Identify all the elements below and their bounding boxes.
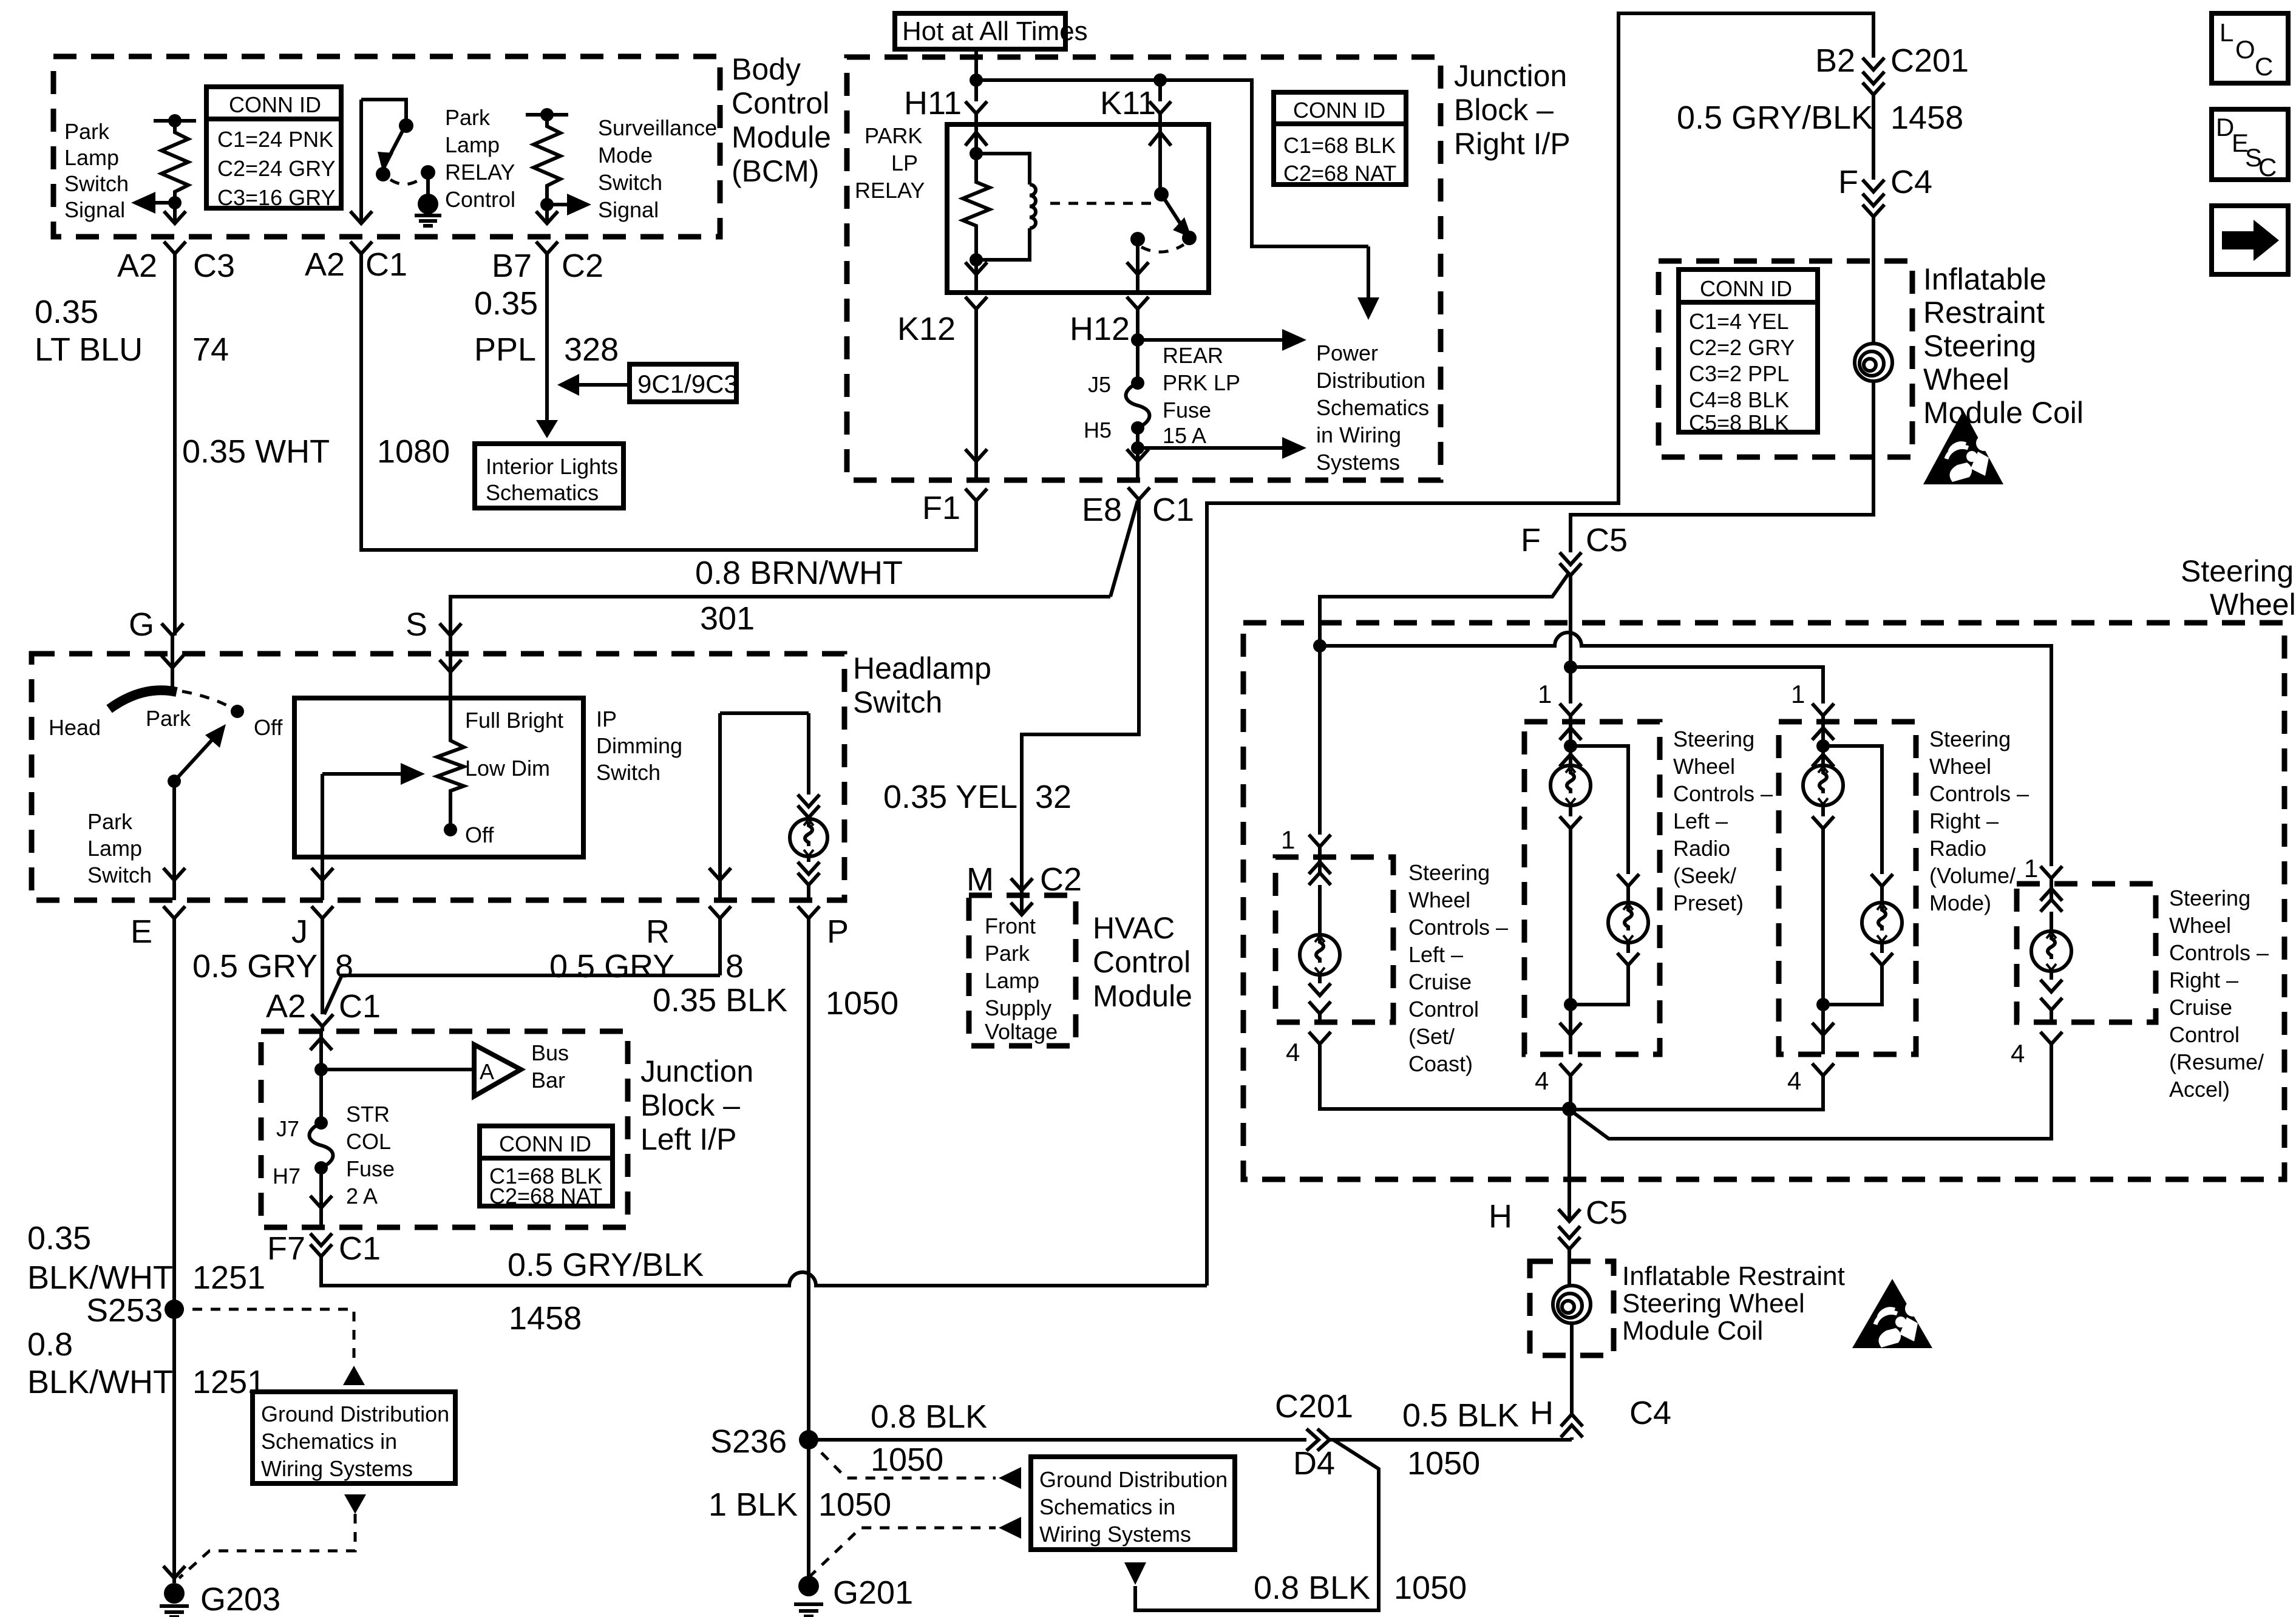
svg-text:1458: 1458 xyxy=(1890,100,1963,136)
svg-text:Inflatable: Inflatable xyxy=(1923,262,2046,296)
svg-text:C1: C1 xyxy=(365,246,407,283)
svg-text:Steering: Steering xyxy=(1923,329,2036,363)
svg-text:C1: C1 xyxy=(339,1230,381,1267)
svg-text:Block –: Block – xyxy=(640,1088,740,1122)
svg-text:J: J xyxy=(291,914,308,950)
D4 branch wire down to ground reference xyxy=(1124,1440,1379,1610)
wire labels 0.35 BLK/WHT 1251 xyxy=(27,1220,265,1296)
svg-text:C2=68 NAT: C2=68 NAT xyxy=(489,1184,602,1209)
wire A2/C3 exit xyxy=(164,203,186,636)
connector R below headlamp box xyxy=(646,906,731,975)
ground distribution box (left) xyxy=(253,1392,455,1483)
svg-text:Off: Off xyxy=(254,715,283,740)
svg-text:Surveillance: Surveillance xyxy=(598,115,717,140)
svg-text:Schematics: Schematics xyxy=(1316,395,1429,420)
body control module BCM dashed box xyxy=(53,52,831,237)
svg-text:Right –: Right – xyxy=(1929,808,1999,833)
pin 4 connector left cruise xyxy=(1286,1032,1569,1109)
svg-text:4: 4 xyxy=(1787,1066,1801,1095)
svg-text:Off: Off xyxy=(465,822,494,847)
svg-text:Lamp: Lamp xyxy=(445,132,500,157)
svg-text:REAR: REAR xyxy=(1163,343,1223,368)
text inflatable restraint steering wheel module coil (bottom) xyxy=(1622,1261,1845,1346)
svg-text:CONN ID: CONN ID xyxy=(229,92,321,117)
svg-text:Control: Control xyxy=(1093,945,1190,979)
svg-text:Switch: Switch xyxy=(853,685,942,719)
svg-text:Module: Module xyxy=(732,120,831,154)
dimmer wiper arrow xyxy=(311,763,425,900)
left cruise lamp xyxy=(1300,857,1340,1022)
svg-text:(BCM): (BCM) xyxy=(732,154,819,188)
svg-text:Preset): Preset) xyxy=(1673,890,1744,915)
svg-text:1050: 1050 xyxy=(1407,1445,1480,1482)
interior lights schematics box xyxy=(475,444,623,508)
connector J below headlamp box xyxy=(291,906,333,1014)
svg-text:C201: C201 xyxy=(1890,42,1969,79)
svg-text:RELAY: RELAY xyxy=(855,178,925,203)
svg-text:Steering: Steering xyxy=(1929,727,2011,751)
SRS airbag warning triangle (top right) xyxy=(1923,410,2003,484)
connector F C5 xyxy=(1320,522,1628,667)
CONN ID table JB right xyxy=(1274,92,1406,186)
svg-text:C1=4 YEL: C1=4 YEL xyxy=(1689,309,1788,334)
svg-text:0.5 BLK: 0.5 BLK xyxy=(1402,1397,1519,1434)
text steering wheel controls left radio xyxy=(1673,727,1773,915)
ground distribution box (middle) xyxy=(1031,1457,1235,1550)
svg-text:Control: Control xyxy=(1408,997,1479,1022)
SRS airbag warning triangle (bottom) xyxy=(1852,1279,1932,1348)
connector P below headlamp box xyxy=(798,906,849,1440)
connector B2 C201 xyxy=(1815,42,1969,180)
svg-text:Park: Park xyxy=(445,105,491,130)
resistor surveillance mode switch signal (BCM) xyxy=(526,108,568,205)
connector C201 D4 (inline) xyxy=(1275,1388,1572,1482)
svg-text:(Resume/: (Resume/ xyxy=(2169,1049,2264,1074)
svg-text:Controls –: Controls – xyxy=(1408,915,1508,940)
wire 0.8 BLK 1050 to C201 xyxy=(809,1398,1306,1478)
wire label 0.35 PPL 328 xyxy=(474,285,619,368)
svg-text:Schematics in: Schematics in xyxy=(261,1429,397,1454)
wire labels 0.5 GRY 8 (J) xyxy=(192,948,353,985)
connector F1 below JB xyxy=(922,489,987,550)
svg-text:Module Coil: Module Coil xyxy=(1622,1316,1763,1346)
fuse output node and arrow xyxy=(1127,428,1306,480)
connector M C2 xyxy=(966,861,1082,898)
svg-text:G201: G201 xyxy=(833,1575,913,1611)
svg-text:Distribution: Distribution xyxy=(1316,368,1425,393)
svg-text:BLK/WHT: BLK/WHT xyxy=(27,1364,173,1400)
svg-text:K12: K12 xyxy=(897,311,956,347)
arrow box xyxy=(2212,206,2288,274)
svg-text:C3=2 PPL: C3=2 PPL xyxy=(1689,361,1789,386)
wire B7/C2 exit xyxy=(536,205,558,428)
node / arrow park lamp switch signal xyxy=(131,192,182,214)
dashed reference from box to G203 xyxy=(179,1494,366,1578)
svg-text:C1: C1 xyxy=(339,988,381,1025)
svg-text:Inflatable Restraint: Inflatable Restraint xyxy=(1622,1261,1845,1291)
connector H12 and fuse branch xyxy=(1070,297,1306,351)
hot at all times box xyxy=(895,13,1088,49)
svg-text:Right –: Right – xyxy=(2169,968,2238,992)
svg-text:Switch: Switch xyxy=(64,171,129,196)
svg-text:Radio: Radio xyxy=(1929,836,1986,861)
inflatable restraint coil dashed box (top right) xyxy=(1659,261,1912,457)
coil spiral symbol (top right) xyxy=(1855,344,1892,393)
svg-text:1: 1 xyxy=(2024,854,2038,883)
svg-text:Cruise: Cruise xyxy=(1408,969,1472,994)
svg-text:0.5 GRY/BLK: 0.5 GRY/BLK xyxy=(1677,100,1873,136)
feed wire from hot at all times xyxy=(970,49,1368,246)
connector H C4 below coil xyxy=(1530,1355,1671,1440)
svg-text:1251: 1251 xyxy=(192,1259,265,1296)
svg-text:Steering: Steering xyxy=(2181,554,2294,588)
svg-text:C1=68 BLK: C1=68 BLK xyxy=(1283,133,1396,158)
svg-text:STR: STR xyxy=(346,1102,390,1127)
svg-text:1 BLK: 1 BLK xyxy=(708,1486,798,1523)
radio feed from F/C5 xyxy=(1564,660,1823,703)
wire label 0.5 GRY/BLK 1458 (top) xyxy=(1677,100,1963,136)
svg-text:Switch: Switch xyxy=(598,170,662,195)
svg-text:Steering: Steering xyxy=(2169,886,2250,910)
svg-text:0.35 WHT: 0.35 WHT xyxy=(182,433,330,470)
svg-text:A2: A2 xyxy=(305,246,345,283)
svg-text:E: E xyxy=(131,914,152,950)
svg-text:BLK/WHT: BLK/WHT xyxy=(27,1259,173,1296)
svg-text:Fuse: Fuse xyxy=(1163,398,1211,422)
text steering wheel controls right radio xyxy=(1929,727,2029,915)
HVAC control module dashed box xyxy=(969,895,1192,1046)
svg-text:Switch: Switch xyxy=(596,760,661,785)
svg-text:9C1/9C3: 9C1/9C3 xyxy=(637,370,738,398)
svg-text:C4: C4 xyxy=(1890,164,1932,200)
svg-text:0.35 BLK: 0.35 BLK xyxy=(653,982,787,1019)
svg-text:Junction: Junction xyxy=(1454,59,1567,93)
text power distribution schematics xyxy=(1316,341,1429,475)
svg-text:Coast): Coast) xyxy=(1408,1051,1473,1076)
svg-text:Control: Control xyxy=(2169,1022,2240,1047)
svg-text:Interior Lights: Interior Lights xyxy=(486,454,618,479)
wire stub into HVAC xyxy=(1011,895,1033,915)
connector H11 xyxy=(904,85,987,124)
coil spiral symbol (bottom) xyxy=(1553,1286,1591,1355)
svg-text:Signal: Signal xyxy=(64,197,125,222)
svg-text:C: C xyxy=(2255,52,2273,81)
svg-text:Steering: Steering xyxy=(1408,860,1490,885)
svg-text:C2=2 GRY: C2=2 GRY xyxy=(1689,335,1795,360)
wire labels 0.8 BLK/WHT 1251 xyxy=(27,1326,265,1400)
svg-text:H: H xyxy=(1530,1395,1554,1431)
svg-text:S236: S236 xyxy=(710,1423,787,1460)
pin 1 connector radio left xyxy=(1538,680,1581,722)
wire below coil to F/C5 xyxy=(1571,381,1873,552)
svg-text:IP: IP xyxy=(596,707,617,731)
svg-text:Left –: Left – xyxy=(1408,942,1463,967)
ground symbol (BCM relay control) xyxy=(415,194,441,226)
CONN ID table BCM xyxy=(206,87,341,210)
svg-text:32: 32 xyxy=(1035,779,1072,815)
svg-text:Wiring Systems: Wiring Systems xyxy=(261,1456,413,1481)
svg-text:0.5 GRY: 0.5 GRY xyxy=(192,948,318,985)
svg-text:O: O xyxy=(2235,35,2255,64)
svg-text:A: A xyxy=(480,1059,494,1084)
svg-text:F1: F1 xyxy=(922,490,960,526)
svg-text:C5: C5 xyxy=(1586,522,1628,558)
svg-text:RELAY: RELAY xyxy=(445,160,515,185)
connector labels A2 C1 (BCM) xyxy=(305,246,407,283)
svg-text:4: 4 xyxy=(1286,1038,1300,1066)
relay inductor xyxy=(976,154,1036,260)
svg-text:Systems: Systems xyxy=(1316,450,1400,475)
svg-text:E8: E8 xyxy=(1082,492,1122,528)
wire label 0.35 LT BLU 74 xyxy=(35,294,229,368)
svg-text:Lamp: Lamp xyxy=(87,836,142,861)
svg-text:Block –: Block – xyxy=(1454,93,1554,127)
svg-text:1050: 1050 xyxy=(871,1442,943,1478)
svg-text:15 A: 15 A xyxy=(1163,423,1206,448)
svg-text:COL: COL xyxy=(346,1129,391,1154)
pin 1 connector left cruise xyxy=(1281,825,1331,857)
right cruise dashed box xyxy=(2017,884,2156,1022)
connector K11 xyxy=(1100,85,1171,124)
DESC box xyxy=(2212,109,2288,181)
inflatable restraint coil dashed box (bottom) xyxy=(1530,1261,1614,1355)
svg-text:Control: Control xyxy=(445,187,515,212)
svg-text:LT BLU: LT BLU xyxy=(35,331,143,368)
svg-text:Steering Wheel: Steering Wheel xyxy=(1622,1289,1805,1318)
svg-text:8: 8 xyxy=(335,948,353,985)
connector G xyxy=(129,606,183,654)
svg-text:J7: J7 xyxy=(276,1116,299,1141)
svg-text:M: M xyxy=(966,861,994,898)
svg-text:Wiring Systems: Wiring Systems xyxy=(1039,1522,1191,1547)
radio left dashed box xyxy=(1524,722,1660,1054)
svg-text:Dimming: Dimming xyxy=(596,733,682,758)
svg-text:Switch: Switch xyxy=(87,863,152,887)
svg-text:K11: K11 xyxy=(1100,85,1156,121)
resistor park lamp switch signal (BCM) xyxy=(154,114,196,203)
radio right dashed box xyxy=(1779,722,1916,1054)
left cruise dashed box xyxy=(1275,857,1393,1022)
svg-text:P: P xyxy=(827,914,849,950)
9C1/9C3 reference box and arrow xyxy=(557,364,738,402)
svg-text:0.8 BRN/WHT: 0.8 BRN/WHT xyxy=(695,555,903,591)
svg-text:D4: D4 xyxy=(1293,1445,1335,1482)
headlamp switch dashed box xyxy=(32,651,991,900)
svg-text:1050: 1050 xyxy=(1394,1570,1467,1606)
connector A2 C1 into JB left xyxy=(266,988,381,1031)
svg-text:H11: H11 xyxy=(904,85,962,121)
text surveillance mode switch signal xyxy=(598,115,717,222)
svg-text:Control: Control xyxy=(732,86,829,120)
svg-text:1458: 1458 xyxy=(509,1300,582,1337)
svg-text:Accel): Accel) xyxy=(2169,1077,2230,1102)
svg-text:LP: LP xyxy=(891,151,918,175)
junction block right I/P dashed box xyxy=(847,57,1571,480)
svg-text:Wheel: Wheel xyxy=(1673,754,1735,779)
svg-text:L: L xyxy=(2220,18,2233,47)
svg-text:C5: C5 xyxy=(1586,1195,1628,1231)
text park lamp relay control xyxy=(445,105,515,212)
splice S236 xyxy=(710,1423,818,1578)
connector labels A2 C3 xyxy=(117,248,235,284)
right cruise lamp xyxy=(2031,884,2071,1022)
svg-text:Park: Park xyxy=(87,809,133,834)
wire label 0.35 WHT 1080 xyxy=(182,433,450,470)
svg-text:1050: 1050 xyxy=(826,985,898,1022)
svg-text:Hot at All Times: Hot at All Times xyxy=(902,16,1088,46)
svg-text:Ground Distribution: Ground Distribution xyxy=(1039,1467,1228,1492)
svg-text:C2=68 NAT: C2=68 NAT xyxy=(1283,161,1396,186)
text steering wheel controls left cruise xyxy=(1408,860,1508,1076)
node / arrow surveillance signal xyxy=(540,194,591,215)
svg-text:Wheel: Wheel xyxy=(2210,588,2296,622)
svg-text:H7: H7 xyxy=(273,1164,301,1188)
text inflatable restraint steering wheel module coil (top right) xyxy=(1923,262,2084,430)
svg-text:1080: 1080 xyxy=(377,433,450,470)
dashed reference from S253 to ground distribution box xyxy=(174,1309,365,1385)
svg-text:CONN ID: CONN ID xyxy=(499,1131,591,1156)
ground G201 xyxy=(794,1575,913,1616)
svg-text:0.35: 0.35 xyxy=(27,1220,91,1256)
svg-text:C4=8 BLK: C4=8 BLK xyxy=(1689,387,1789,412)
ground junction node steering wheel xyxy=(1562,1102,1577,1221)
svg-text:Controls –: Controls – xyxy=(2169,940,2269,965)
svg-text:0.8 BLK: 0.8 BLK xyxy=(1254,1570,1370,1606)
svg-text:Ground Distribution: Ground Distribution xyxy=(261,1402,449,1426)
svg-text:(Volume/: (Volume/ xyxy=(1929,863,2016,888)
svg-text:C2: C2 xyxy=(562,248,603,284)
svg-text:C3=16 GRY: C3=16 GRY xyxy=(217,185,335,210)
svg-text:Restraint: Restraint xyxy=(1923,296,2045,330)
wire labels 0.5 GRY 8 (R) xyxy=(549,948,744,985)
connector E8 C1 below JB xyxy=(1022,487,1194,890)
park lamp relay control switch (BCM) xyxy=(361,100,435,195)
svg-text:PRK LP: PRK LP xyxy=(1163,370,1240,395)
svg-text:C: C xyxy=(2258,153,2277,181)
svg-text:Park: Park xyxy=(64,119,110,144)
svg-text:Left –: Left – xyxy=(1673,808,1728,833)
wire 0.8 BRN/WHT 301 to headlamp switch xyxy=(450,555,1110,637)
CONN ID table coil xyxy=(1679,269,1818,435)
svg-text:Low Dim: Low Dim xyxy=(465,756,550,781)
svg-text:B2: B2 xyxy=(1815,42,1855,79)
svg-text:Front: Front xyxy=(985,914,1036,938)
svg-text:0.8: 0.8 xyxy=(27,1326,73,1363)
svg-text:Controls –: Controls – xyxy=(1929,781,2029,806)
pin1 feed distribution xyxy=(1313,632,2051,866)
svg-text:4: 4 xyxy=(1535,1066,1549,1095)
svg-text:0.35 YEL: 0.35 YEL xyxy=(883,779,1017,815)
fuse STR COL J7 H7 xyxy=(273,1070,395,1209)
svg-text:Schematics in: Schematics in xyxy=(1039,1494,1175,1519)
svg-text:C5=8 BLK: C5=8 BLK xyxy=(1689,410,1789,435)
svg-text:Right I/P: Right I/P xyxy=(1454,127,1571,161)
wire labels 0.5 GRY/BLK 1458 (bottom) xyxy=(508,1247,704,1337)
svg-text:0.35: 0.35 xyxy=(474,285,538,322)
text park lamp switch xyxy=(87,809,152,887)
svg-text:Fuse: Fuse xyxy=(346,1156,395,1181)
svg-text:G: G xyxy=(129,606,154,643)
svg-text:Mode): Mode) xyxy=(1929,890,1991,915)
svg-text:Supply: Supply xyxy=(985,995,1051,1020)
relay mechanical dashed link xyxy=(1050,202,1158,205)
park lp relay box xyxy=(855,123,1209,293)
svg-text:PPL: PPL xyxy=(474,331,536,368)
wire label 0.5 BLK 1050 xyxy=(1402,1397,1519,1482)
svg-text:F7: F7 xyxy=(267,1230,305,1267)
svg-text:Bus: Bus xyxy=(531,1040,569,1065)
arrow to power distribution (top) xyxy=(1357,246,1379,320)
svg-text:Module: Module xyxy=(1093,979,1192,1013)
svg-text:1: 1 xyxy=(1538,680,1552,708)
relay coil branch xyxy=(963,124,990,293)
svg-text:G203: G203 xyxy=(200,1581,280,1617)
svg-text:Radio: Radio xyxy=(1673,836,1730,861)
svg-text:C2: C2 xyxy=(1040,861,1082,898)
svg-text:PARK: PARK xyxy=(864,123,922,148)
svg-text:Wheel: Wheel xyxy=(1923,362,2009,396)
pin 1 connector radio right xyxy=(1791,680,1834,722)
dashed reference S236 to middle box (upper) xyxy=(809,1440,1021,1489)
wire A2/C1 exit from BCM xyxy=(350,100,976,550)
svg-text:Wheel: Wheel xyxy=(1929,754,1991,779)
svg-text:0.5 GRY/BLK: 0.5 GRY/BLK xyxy=(508,1247,704,1283)
svg-text:Lamp: Lamp xyxy=(64,145,119,170)
svg-text:1: 1 xyxy=(1281,825,1295,854)
fuse rear prk lp J5 H5 xyxy=(1084,340,1240,448)
svg-text:Module Coil: Module Coil xyxy=(1923,396,2084,430)
dimmer rheostat xyxy=(437,654,563,847)
lamp symbol headlamp switch illumination xyxy=(790,819,827,900)
svg-text:328: 328 xyxy=(564,331,619,368)
svg-text:(Set/: (Set/ xyxy=(1408,1024,1455,1049)
svg-text:Head: Head xyxy=(49,715,101,740)
svg-text:Steering: Steering xyxy=(1673,727,1754,751)
svg-text:74: 74 xyxy=(192,331,229,368)
pin 4 connector right cruise xyxy=(1572,1032,2062,1139)
bus bar triangle A xyxy=(321,1040,569,1096)
svg-text:C1=24 PNK: C1=24 PNK xyxy=(217,127,333,152)
svg-text:Mode: Mode xyxy=(598,143,653,168)
svg-text:C3: C3 xyxy=(193,248,235,284)
connector K12 xyxy=(897,297,987,480)
connector F7 C1 xyxy=(267,1230,1207,1286)
fuse output exits JB left xyxy=(310,1168,332,1227)
svg-text:Cruise: Cruise xyxy=(2169,995,2232,1020)
ground G203 xyxy=(160,1566,280,1617)
svg-text:Signal: Signal xyxy=(598,197,659,222)
arrow into interior lights box xyxy=(536,420,558,438)
svg-text:2 A: 2 A xyxy=(346,1184,378,1209)
svg-text:Junction: Junction xyxy=(640,1054,753,1088)
connector S xyxy=(406,606,461,654)
switch arm park lamp switch xyxy=(163,724,226,900)
svg-text:0.35: 0.35 xyxy=(35,294,98,330)
svg-text:Body: Body xyxy=(732,52,801,86)
svg-text:Park: Park xyxy=(985,941,1030,966)
relay contact switch xyxy=(1127,124,1197,293)
connector labels B7 C2 xyxy=(492,248,603,284)
svg-text:301: 301 xyxy=(700,600,755,637)
svg-text:J5: J5 xyxy=(1088,372,1111,397)
svg-text:A2: A2 xyxy=(266,988,306,1025)
svg-text:B7: B7 xyxy=(492,248,532,284)
wire labels 0.8 BLK 1050 (bottom) xyxy=(1254,1570,1467,1606)
svg-text:Headlamp: Headlamp xyxy=(853,651,991,685)
svg-text:1: 1 xyxy=(1791,680,1805,708)
IP dimming switch box xyxy=(294,698,682,857)
svg-text:0.5 GRY: 0.5 GRY xyxy=(549,948,674,985)
